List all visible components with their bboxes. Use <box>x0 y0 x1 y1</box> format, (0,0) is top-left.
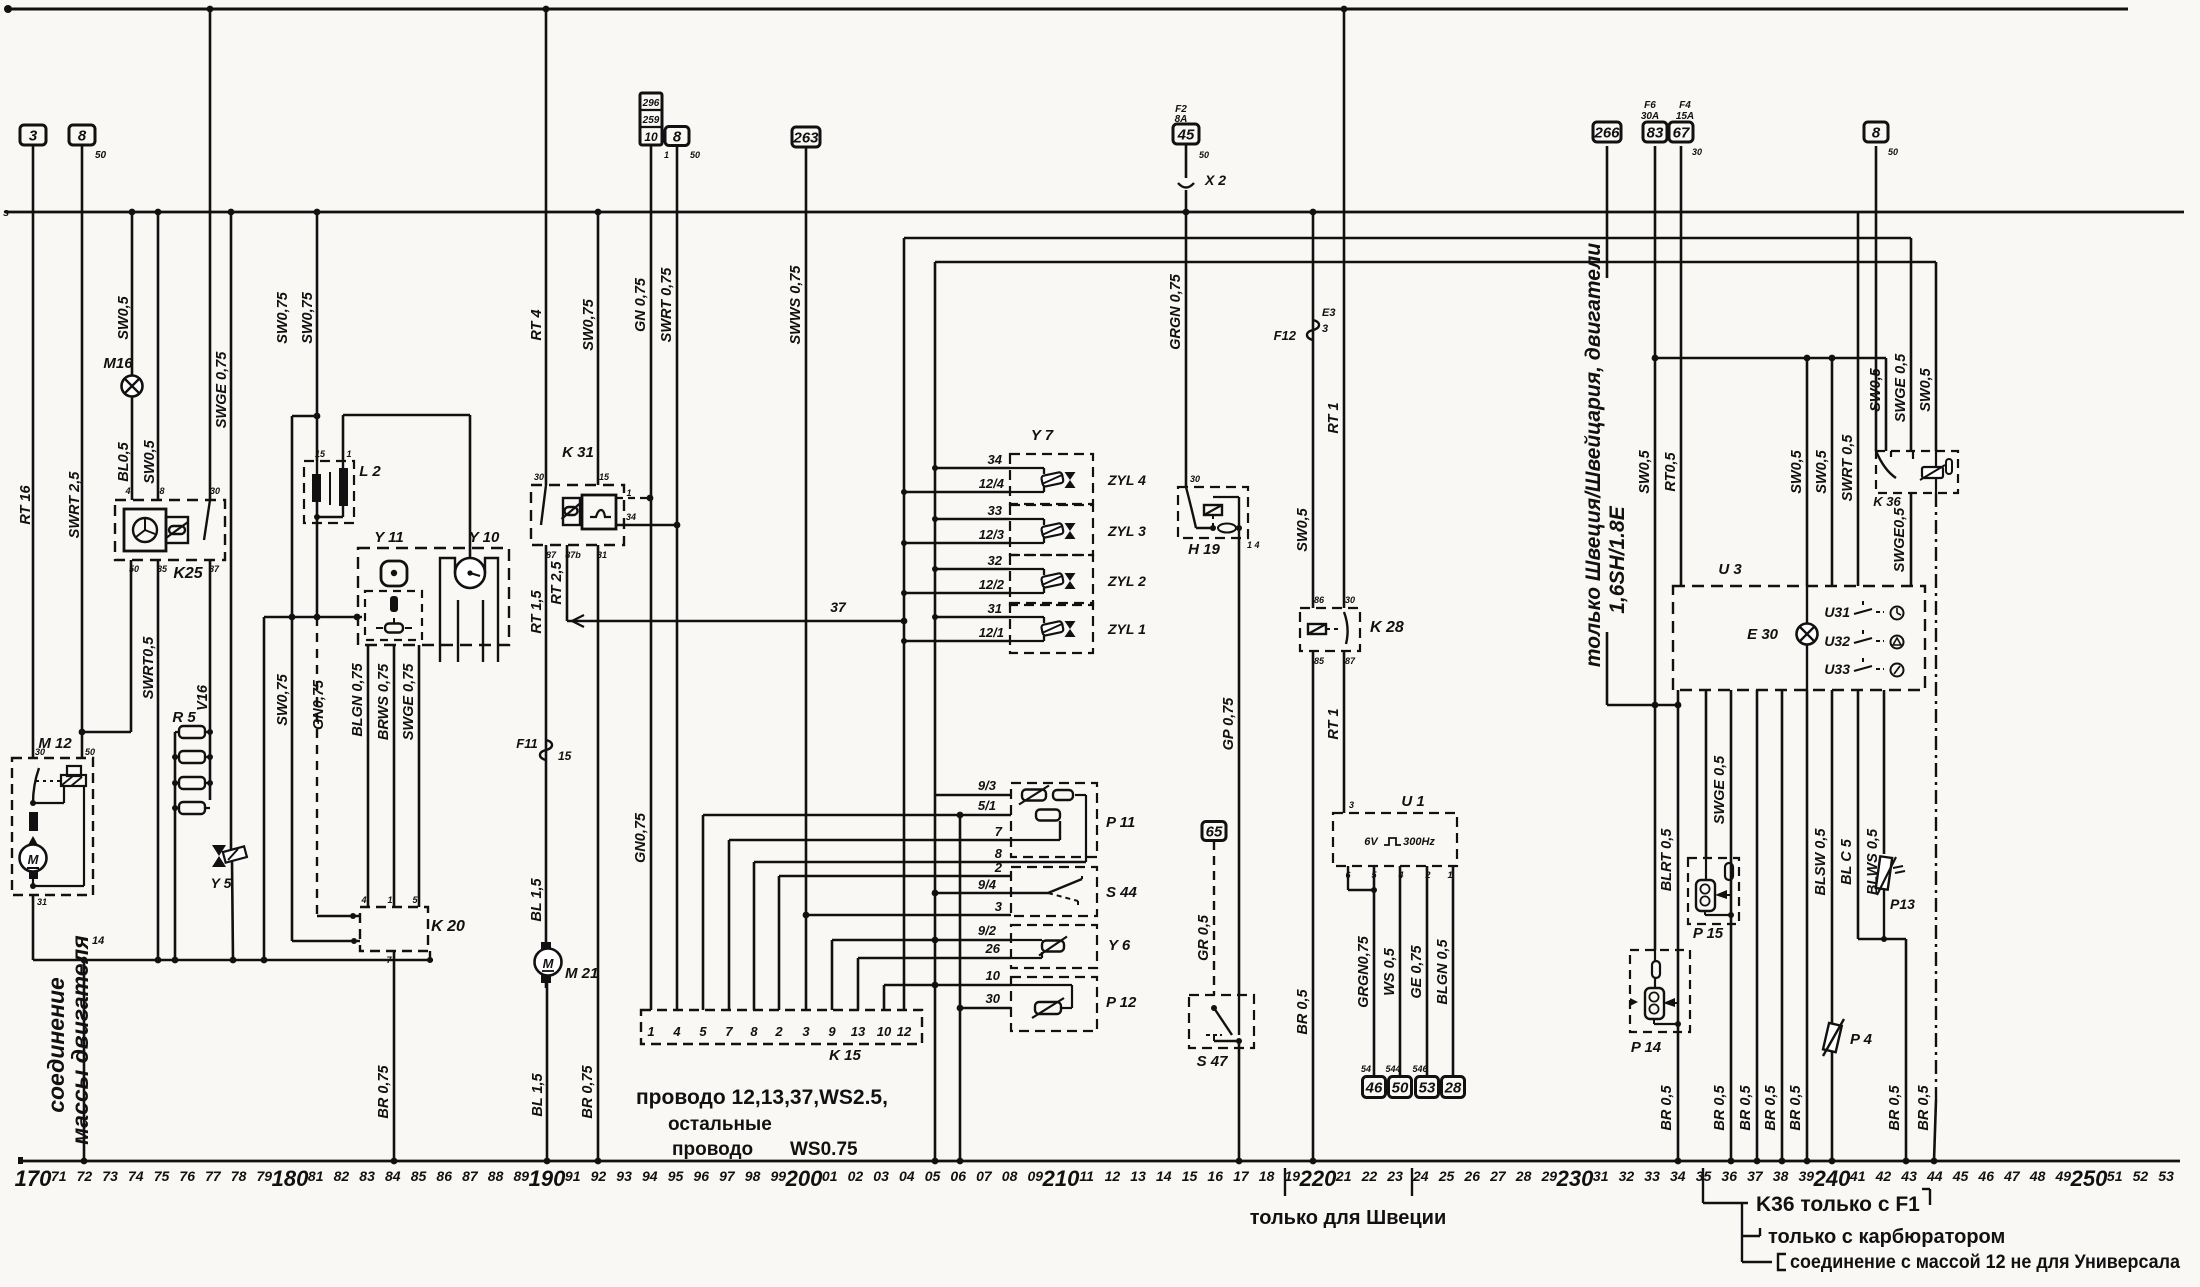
svg-text:s: s <box>3 207 9 219</box>
svg-text:BLSW 0,5: BLSW 0,5 <box>1813 828 1829 896</box>
svg-text:8: 8 <box>995 846 1003 861</box>
svg-text:P 11: P 11 <box>1106 814 1135 831</box>
wire connector266 down, interrupted by annotation <box>1606 146 1609 278</box>
svg-text:11: 11 <box>1079 1168 1094 1184</box>
svg-text:89: 89 <box>514 1168 530 1184</box>
wire SWWS0.75 connector263 to K15 pin3 <box>805 146 808 1010</box>
svg-text:28: 28 <box>1444 1079 1462 1096</box>
wire row 30 to P12 <box>960 1007 1011 1010</box>
svg-text:46: 46 <box>1977 1168 1994 1184</box>
svg-text:30: 30 <box>210 486 220 496</box>
svg-text:H 19: H 19 <box>1188 541 1220 558</box>
svg-text:14: 14 <box>1156 1168 1172 1184</box>
svg-text:9: 9 <box>828 1024 836 1039</box>
svg-text:30: 30 <box>986 991 1001 1006</box>
connector 67 <box>1669 122 1693 142</box>
wire SW0.75 bus2 to K31.15 <box>597 212 600 485</box>
wire BR0.5 (E30) U3 to ruler 238 <box>1806 690 1809 1161</box>
svg-text:RT 1: RT 1 <box>1326 708 1342 739</box>
wire SWGE0.5 K36 to U3 <box>1910 493 1913 586</box>
horn M21 <box>541 942 551 950</box>
svg-text:BR 0,5: BR 0,5 <box>1887 1085 1903 1131</box>
coil secondary to distributor <box>342 415 345 461</box>
svg-text:28: 28 <box>1515 1168 1532 1184</box>
svg-text:RT 16: RT 16 <box>18 484 34 524</box>
instrument unit U3 <box>1673 586 1925 690</box>
svg-text:BR 0,5: BR 0,5 <box>1738 1085 1754 1131</box>
wire from y617 corner down to ground <box>263 617 266 960</box>
svg-text:51: 51 <box>2107 1168 2123 1184</box>
note: only with carburetor <box>1741 1203 1743 1262</box>
wire K15 pin13 to Y6 26 <box>857 958 860 1010</box>
wire BR0.75 K31.31 to ground ruler <box>597 545 600 1161</box>
svg-text:BR 0,5: BR 0,5 <box>1712 1085 1728 1131</box>
svg-text:F12: F12 <box>1274 328 1297 343</box>
wire SW0.75 bus2 to ignition coil <box>316 212 319 461</box>
svg-text:P 12: P 12 <box>1106 994 1137 1011</box>
wire SW0.5 connector8 to K36 <box>1875 146 1878 451</box>
switch S44 <box>1011 867 1097 916</box>
relay K36 <box>1876 451 1958 493</box>
wire RT1 30bus to K28 <box>1343 9 1346 608</box>
svg-text:U32: U32 <box>1824 633 1850 649</box>
svg-text:32: 32 <box>988 553 1003 568</box>
svg-text:01: 01 <box>822 1168 838 1184</box>
svg-text:10: 10 <box>877 1024 892 1039</box>
svg-text:BL0,5: BL0,5 <box>116 441 132 481</box>
M12 motor <box>20 845 47 872</box>
svg-text:18: 18 <box>1259 1168 1275 1184</box>
svg-text:230: 230 <box>1556 1166 1594 1191</box>
wire BL0.5 lamp to K25 <box>131 397 134 500</box>
svg-text:36: 36 <box>1721 1168 1737 1184</box>
wire K15 pin10 to P12 10 <box>883 985 886 1010</box>
svg-text:71: 71 <box>51 1168 67 1184</box>
svg-text:26: 26 <box>985 941 1001 956</box>
svg-text:SWGE 0,75: SWGE 0,75 <box>214 351 230 428</box>
svg-text:250: 250 <box>2070 1166 2108 1191</box>
wire SW0.5 with lamp M16 <box>131 212 134 375</box>
svg-text:GRGN0,75: GRGN0,75 <box>1356 935 1372 1008</box>
svg-text:BLRT 0,5: BLRT 0,5 <box>1659 828 1675 892</box>
wire SWRT0.75 connector8 to K15 pin4 <box>676 145 679 1010</box>
svg-text:39: 39 <box>1799 1168 1815 1184</box>
svg-text:77: 77 <box>205 1168 222 1184</box>
svg-text:U33: U33 <box>1824 661 1850 677</box>
svg-text:34: 34 <box>626 512 636 522</box>
distributor assembly Y11 <box>358 548 509 645</box>
svg-text:06: 06 <box>950 1168 966 1184</box>
svg-text:8: 8 <box>1872 124 1881 141</box>
svg-text:12/4: 12/4 <box>979 476 1005 491</box>
K20 case ground to rail <box>429 951 431 960</box>
svg-text:RT 2,5: RT 2,5 <box>549 560 565 604</box>
svg-text:F4: F4 <box>1679 100 1691 111</box>
wire net12 vertical <box>903 238 906 1010</box>
wire BR0.5 K28 to ruler <box>1312 651 1315 1161</box>
svg-text:ZYL 2: ZYL 2 <box>1107 573 1146 589</box>
svg-text:4: 4 <box>672 1024 681 1039</box>
svg-text:проводо: проводо <box>672 1139 753 1160</box>
injector ZYL 1 <box>1010 603 1093 653</box>
svg-text:93: 93 <box>616 1168 632 1184</box>
svg-text:K 20: K 20 <box>431 918 465 935</box>
svg-text:34: 34 <box>1670 1168 1686 1184</box>
svg-text:263: 263 <box>792 129 819 146</box>
connector 45 <box>1173 124 1199 144</box>
svg-text:44: 44 <box>1926 1168 1943 1184</box>
svg-text:ZYL 3: ZYL 3 <box>1107 523 1146 539</box>
svg-text:50: 50 <box>1199 150 1209 160</box>
svg-text:3: 3 <box>995 899 1003 914</box>
svg-text:85: 85 <box>411 1168 427 1184</box>
wire SW0.75 down to K20 <box>291 416 294 941</box>
svg-text:13: 13 <box>1130 1168 1146 1184</box>
svg-text:73: 73 <box>102 1168 118 1184</box>
svg-text:M: M <box>28 852 40 867</box>
svg-text:1 4: 1 4 <box>1247 540 1260 550</box>
svg-text:K 28: K 28 <box>1370 619 1404 636</box>
svg-text:240: 240 <box>1813 1166 1851 1191</box>
svg-text:87: 87 <box>546 550 557 560</box>
svg-text:BR 0,5: BR 0,5 <box>1788 1085 1804 1131</box>
svg-text:2: 2 <box>994 860 1003 875</box>
svg-text:K 31: K 31 <box>562 444 594 461</box>
wire K15 pin7 to P11 7 <box>728 840 731 1010</box>
svg-text:50: 50 <box>85 747 95 757</box>
svg-text:S 47: S 47 <box>1197 1053 1229 1070</box>
svg-text:86: 86 <box>436 1168 452 1184</box>
svg-text:SWRT 0,5: SWRT 0,5 <box>1840 434 1856 502</box>
Y11 outputs to K20 <box>367 645 370 907</box>
svg-text:BR 0,5: BR 0,5 <box>1659 1085 1675 1131</box>
svg-text:78: 78 <box>231 1168 247 1184</box>
svg-text:12/2: 12/2 <box>979 577 1005 592</box>
wire RT2.5 K31.87b to line 37 <box>566 545 569 621</box>
svg-text:37: 37 <box>1747 1168 1764 1184</box>
lamp E30 <box>1806 586 1808 623</box>
relay K25 <box>115 500 225 560</box>
svg-text:15: 15 <box>558 749 572 763</box>
svg-text:8: 8 <box>78 127 87 144</box>
wire 37 horizontal <box>567 620 904 623</box>
wire K15 pin2 to S44 2 <box>778 876 781 1010</box>
svg-text:SW0,75: SW0,75 <box>581 298 597 351</box>
wire K15 pin3 to S44 3 <box>806 914 1011 917</box>
wire to ruler 206 <box>959 815 962 1161</box>
svg-text:U 3: U 3 <box>1718 561 1742 578</box>
svg-text:4: 4 <box>360 895 366 905</box>
svg-text:47: 47 <box>2003 1168 2021 1184</box>
note: only for Sweden <box>1284 1168 1286 1196</box>
note: K36 only with F <box>1702 1168 1704 1203</box>
svg-text:P 14: P 14 <box>1631 1039 1662 1056</box>
engine ground strap to ruler <box>83 960 86 1161</box>
svg-text:SW0,75: SW0,75 <box>275 673 291 726</box>
svg-text:GN 0,75: GN 0,75 <box>633 277 649 332</box>
svg-text:S 44: S 44 <box>1106 884 1138 901</box>
svg-text:E3: E3 <box>1322 307 1335 319</box>
wire BL0.5 U3 down <box>1857 690 1860 939</box>
svg-text:170: 170 <box>15 1166 52 1191</box>
svg-text:5/1: 5/1 <box>978 798 996 813</box>
svg-text:07: 07 <box>976 1168 993 1184</box>
svg-text:SWWS 0,75: SWWS 0,75 <box>788 265 804 345</box>
svg-text:190: 190 <box>529 1166 566 1191</box>
svg-text:WS 0,5: WS 0,5 <box>1382 947 1398 995</box>
svg-text:99: 99 <box>771 1168 787 1184</box>
wire GP0.75 H19 to S47 <box>1238 538 1241 995</box>
connector K15 <box>641 1010 922 1044</box>
svg-text:P 15: P 15 <box>1693 925 1724 942</box>
wire S47 to ruler <box>1238 1041 1241 1161</box>
wire: ignition 15 bus <box>5 211 2184 214</box>
svg-text:16: 16 <box>1207 1168 1223 1184</box>
wire SW0.5 bus2 to K28 with fuse F12 <box>1312 212 1315 608</box>
svg-text:22: 22 <box>1361 1168 1378 1184</box>
wire RT4 from 30-bus to K31 <box>545 9 548 485</box>
svg-text:F6: F6 <box>1644 100 1656 111</box>
svg-text:P13: P13 <box>1890 896 1915 912</box>
control unit K20 <box>360 907 428 951</box>
distributor cap outline <box>440 558 498 645</box>
M12 series winding <box>29 812 38 831</box>
svg-text:9/3: 9/3 <box>978 778 997 793</box>
svg-text:1: 1 <box>346 449 351 459</box>
svg-text:Y 5: Y 5 <box>211 875 232 891</box>
svg-text:8A: 8A <box>1175 114 1188 125</box>
svg-text:SWGE 0,75: SWGE 0,75 <box>401 663 417 740</box>
svg-text:200: 200 <box>785 1166 823 1191</box>
svg-text:SW0,5: SW0,5 <box>142 439 158 483</box>
K25 switch contact 87 <box>204 500 210 540</box>
svg-text:1: 1 <box>664 150 669 160</box>
connector 266 <box>1593 122 1621 142</box>
wire SWRT0.5 bus2 to U3 <box>1857 212 1860 586</box>
svg-text:V16: V16 <box>195 684 211 711</box>
wire GRGN0.75 connector45 to H19 <box>1185 145 1188 178</box>
control unit U1 <box>1333 813 1457 866</box>
wire BLRT0.5 U3 to P14/ruler <box>1677 690 1680 1161</box>
svg-text:8: 8 <box>673 128 682 145</box>
svg-text:87: 87 <box>1345 656 1356 666</box>
wire: engine ground rail <box>33 959 433 962</box>
heater H19 <box>1178 487 1248 538</box>
M12 solenoid <box>67 766 81 776</box>
svg-text:1,6SH/1.8E: 1,6SH/1.8E <box>1606 505 1629 613</box>
wire SW0.5 line C through K36 down <box>1935 262 1938 451</box>
svg-text:27: 27 <box>1489 1168 1507 1184</box>
svg-text:GN0,75: GN0,75 <box>633 812 649 863</box>
trigger contact symbol <box>385 624 403 633</box>
svg-text:65: 65 <box>1206 823 1223 840</box>
svg-text:8: 8 <box>159 486 164 496</box>
svg-text:75: 75 <box>154 1168 170 1184</box>
wire SW0.5 bus to K25 <box>157 212 160 500</box>
svg-text:15: 15 <box>599 472 610 482</box>
svg-text:остальные: остальные <box>668 1114 772 1135</box>
svg-text:14: 14 <box>92 935 104 947</box>
svg-text:87: 87 <box>462 1168 479 1184</box>
svg-text:34: 34 <box>988 452 1003 467</box>
svg-text:17: 17 <box>1233 1168 1250 1184</box>
svg-text:3: 3 <box>1349 800 1354 810</box>
svg-text:180: 180 <box>272 1166 309 1191</box>
svg-text:30: 30 <box>1345 595 1355 605</box>
svg-text:96: 96 <box>693 1168 709 1184</box>
svg-text:GRGN 0,75: GRGN 0,75 <box>1168 273 1184 350</box>
svg-text:21: 21 <box>1335 1168 1352 1184</box>
svg-text:05: 05 <box>925 1168 941 1184</box>
svg-text:K25: K25 <box>173 565 203 582</box>
svg-text:33: 33 <box>988 503 1003 518</box>
svg-text:Y 11: Y 11 <box>374 529 403 546</box>
wire SWGE0.5/BR0.5 through P15 to ruler <box>1730 690 1733 1161</box>
feed line y358 to K36 <box>1655 357 1886 360</box>
svg-text:12/3: 12/3 <box>979 527 1005 542</box>
transistor unit P15 <box>1705 690 1708 858</box>
svg-text:BR 0,75: BR 0,75 <box>580 1064 596 1118</box>
svg-text:86: 86 <box>1314 595 1325 605</box>
temp sensor P13 <box>1883 690 1886 854</box>
svg-text:67: 67 <box>1673 124 1690 141</box>
wire net9 vertical <box>934 262 937 1161</box>
svg-text:Y 6: Y 6 <box>1108 937 1131 954</box>
svg-text:RT 1: RT 1 <box>1326 402 1342 433</box>
svg-text:только с карбюратором: только с карбюратором <box>1768 1226 2005 1248</box>
svg-text:54: 54 <box>1361 1064 1371 1074</box>
sensor P12 <box>1011 977 1097 1031</box>
svg-text:GE 0,75: GE 0,75 <box>1409 944 1425 998</box>
svg-text:52: 52 <box>2133 1168 2149 1184</box>
svg-text:3: 3 <box>29 127 38 144</box>
svg-text:12: 12 <box>1105 1168 1121 1184</box>
svg-text:33: 33 <box>1644 1168 1660 1184</box>
svg-text:F11: F11 <box>516 736 537 751</box>
svg-text:ZYL 1: ZYL 1 <box>1107 621 1146 637</box>
connector 263 <box>792 127 820 147</box>
svg-text:12/1: 12/1 <box>979 625 1004 640</box>
svg-text:50: 50 <box>1888 147 1898 157</box>
wire BR0.75 K20 to ground ruler <box>393 951 396 1161</box>
thermo switch P4 <box>1831 690 1834 1161</box>
svg-text:5: 5 <box>699 1024 707 1039</box>
svg-text:M16: M16 <box>103 355 133 372</box>
svg-text:SW0,5: SW0,5 <box>1918 367 1934 411</box>
svg-text:83: 83 <box>359 1168 375 1184</box>
ruler base line <box>18 1160 2180 1163</box>
wire GR0.5 to S47 <box>1213 841 1215 995</box>
svg-text:R 5: R 5 <box>172 709 196 726</box>
svg-text:15: 15 <box>315 449 326 459</box>
svg-text:210: 210 <box>1042 1166 1080 1191</box>
sensor P11 <box>1011 783 1097 857</box>
svg-text:2: 2 <box>774 1024 783 1039</box>
svg-text:296: 296 <box>642 98 660 109</box>
svg-text:85: 85 <box>1314 656 1325 666</box>
wire BR0.5 to ruler 243 <box>1884 938 1906 940</box>
wire net9 row 9/3 <box>935 794 1011 797</box>
svg-text:98: 98 <box>745 1168 761 1184</box>
svg-text:97: 97 <box>719 1168 736 1184</box>
K31 pin1 dashed to GN wire <box>616 497 650 499</box>
svg-text:15: 15 <box>1182 1168 1198 1184</box>
svg-text:соединение: соединение <box>43 977 69 1113</box>
svg-text:L 2: L 2 <box>359 463 381 480</box>
svg-text:220: 220 <box>1299 1166 1337 1191</box>
svg-text:546: 546 <box>1412 1064 1428 1074</box>
svg-text:SW0,5: SW0,5 <box>1295 507 1311 551</box>
svg-text:12: 12 <box>897 1024 912 1039</box>
wires SW0.5 to U3 top <box>1806 358 1809 586</box>
svg-text:SW0,5: SW0,5 <box>1637 449 1653 493</box>
wire BR0.5 U3 to ruler 237 <box>1781 690 1784 1161</box>
svg-text:259: 259 <box>642 115 660 126</box>
wire SWGE0.5 line B to K36 <box>1910 238 1913 451</box>
svg-text:50: 50 <box>95 150 107 161</box>
svg-text:GR 0,5: GR 0,5 <box>1196 914 1212 961</box>
svg-text:1: 1 <box>647 1024 654 1039</box>
svg-text:SWGE 0,5: SWGE 0,5 <box>1893 353 1909 422</box>
svg-text:88: 88 <box>488 1168 504 1184</box>
svg-text:7: 7 <box>725 1024 733 1039</box>
svg-text:31: 31 <box>37 897 47 907</box>
svg-text:BR 0,5: BR 0,5 <box>1916 1085 1932 1131</box>
svg-text:10: 10 <box>986 968 1001 983</box>
valve Y5 <box>212 845 226 867</box>
wire RT0.5 connector67 to U3 <box>1680 146 1683 586</box>
relay K28 <box>1300 608 1360 651</box>
svg-text:1: 1 <box>626 488 631 498</box>
wire RT1.5 K31.87 down <box>545 545 548 988</box>
svg-text:15A: 15A <box>1676 111 1694 122</box>
svg-text:79: 79 <box>257 1168 273 1184</box>
svg-text:37: 37 <box>830 599 847 615</box>
svg-text:84: 84 <box>385 1168 401 1184</box>
wire SWGE0.75 bus2 down through Y5 to ground <box>230 212 233 850</box>
svg-text:94: 94 <box>642 1168 658 1184</box>
svg-text:7: 7 <box>995 824 1003 839</box>
svg-text:K 36: K 36 <box>1873 494 1901 509</box>
wire: net 12 feedback line B <box>904 237 1911 239</box>
svg-text:только для Швеции: только для Швеции <box>1250 1207 1447 1229</box>
connector 65 <box>1202 822 1226 841</box>
svg-text:K36 только с F1: K36 только с F1 <box>1756 1193 1920 1216</box>
fuse F11 <box>540 740 552 760</box>
svg-text:92: 92 <box>591 1168 607 1184</box>
svg-text:SWRT 0,75: SWRT 0,75 <box>659 267 675 343</box>
svg-text:23: 23 <box>1386 1168 1403 1184</box>
svg-text:4: 4 <box>124 486 130 496</box>
wire GN0.75 connector10 to K15 pin1 <box>650 145 653 1010</box>
svg-text:3: 3 <box>802 1024 810 1039</box>
leader to Sweden-only wires <box>1607 704 1678 707</box>
svg-text:32: 32 <box>1619 1168 1635 1184</box>
svg-text:9/4: 9/4 <box>978 877 997 892</box>
svg-text:45: 45 <box>1952 1168 1969 1184</box>
svg-text:53: 53 <box>1419 1079 1436 1096</box>
svg-text:RT0,5: RT0,5 <box>1663 451 1679 491</box>
svg-text:04: 04 <box>899 1168 915 1184</box>
svg-text:BRWS 0,75: BRWS 0,75 <box>376 663 392 740</box>
svg-text:SWRT 2,5: SWRT 2,5 <box>67 471 83 539</box>
wire RT1 K28.87 to U1 <box>1343 651 1346 813</box>
svg-text:19: 19 <box>1285 1168 1301 1184</box>
svg-text:6V: 6V <box>1364 836 1379 848</box>
svg-text:81: 81 <box>308 1168 324 1184</box>
svg-text:SW0,75: SW0,75 <box>275 291 291 344</box>
svg-text:300Hz: 300Hz <box>1403 836 1435 848</box>
